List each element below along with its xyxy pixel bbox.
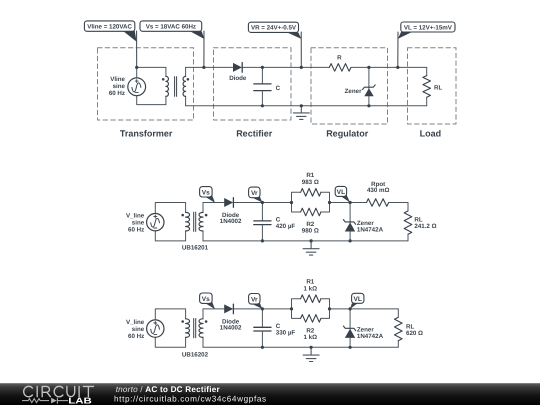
flag Vs mid <box>200 187 215 203</box>
svg-text:sine: sine <box>132 326 145 333</box>
resistor R2 mid <box>301 208 321 216</box>
diode D3 1N4002 bot <box>224 304 233 314</box>
svg-text:980 Ω: 980 Ω <box>302 228 319 235</box>
ground bot <box>303 347 319 361</box>
resistor R2 bot <box>301 315 321 323</box>
resistor RL top <box>423 67 431 105</box>
flag VL mid <box>335 186 350 202</box>
svg-text:VL: VL <box>337 189 345 196</box>
wire source top <box>136 67 138 78</box>
svg-text:1N4742A: 1N4742A <box>357 227 384 234</box>
wire RL branch mid <box>407 203 409 241</box>
svg-text:VL = 12V+-15mV: VL = 12V+-15mV <box>404 25 453 32</box>
diode D top <box>233 63 242 73</box>
callout Vline = 120VAC <box>84 21 136 68</box>
svg-text:LAB: LAB <box>68 395 92 405</box>
dashed box Regulator <box>311 48 388 124</box>
svg-text:V_line: V_line <box>126 319 145 326</box>
logo schematic line with resistor and diode <box>22 398 68 404</box>
svg-text:UB16201: UB16201 <box>182 245 209 252</box>
resistor R1 bot <box>301 295 321 303</box>
flag Vr bot <box>249 294 263 309</box>
wire bottom rail <box>186 105 427 107</box>
section labels <box>120 129 441 139</box>
wire top rail <box>186 66 427 68</box>
svg-text:420 µF: 420 µF <box>276 223 296 230</box>
resistor RL bot <box>395 317 403 340</box>
wire secondary leads bot <box>202 309 204 347</box>
svg-text:430 mΩ: 430 mΩ <box>367 187 390 194</box>
svg-text:Diode: Diode <box>229 75 247 82</box>
svg-text:Load: Load <box>420 129 442 139</box>
dashed box Rectifier <box>214 48 292 120</box>
svg-text:UB16202: UB16202 <box>182 351 209 358</box>
R1 R2 parallel block bot <box>292 299 330 319</box>
wire bottom rail bot <box>203 346 398 348</box>
svg-text:Transformer: Transformer <box>120 129 173 139</box>
svg-text:1N4002: 1N4002 <box>220 218 242 225</box>
zener D2 1N4742A mid <box>343 203 355 241</box>
svg-text:60 Hz: 60 Hz <box>128 333 144 340</box>
svg-text:sine: sine <box>113 83 126 90</box>
resistor R1 mid <box>301 189 321 197</box>
logo CIRCUIT <box>24 386 94 396</box>
svg-text:Vline = 120VAC: Vline = 120VAC <box>87 24 132 31</box>
svg-text:1N4002: 1N4002 <box>220 324 242 331</box>
svg-text:241.2 Ω: 241.2 Ω <box>414 223 436 230</box>
zener diode top <box>363 67 376 105</box>
svg-text:C: C <box>276 85 281 92</box>
capacitor C2 bot <box>254 309 271 347</box>
svg-text:1 kΩ: 1 kΩ <box>304 334 318 341</box>
svg-text:RL: RL <box>434 84 442 91</box>
labels bot <box>126 279 423 359</box>
resistor R top <box>329 64 351 72</box>
transformer T top <box>162 76 189 96</box>
svg-text:Vs: Vs <box>202 296 210 303</box>
capacitor C1 mid <box>254 203 271 241</box>
svg-text:Zener: Zener <box>345 88 362 95</box>
svg-text:330 µF: 330 µF <box>276 330 296 337</box>
svg-text:sine: sine <box>132 220 145 227</box>
svg-text:VL: VL <box>353 296 361 303</box>
junction dots mid <box>261 201 352 243</box>
flag VL bot <box>350 293 364 309</box>
ground mid <box>303 241 319 255</box>
wire primary top <box>137 66 166 68</box>
svg-text:http://circuitlab.com/cw34c64w: http://circuitlab.com/cw34c64wgpfas <box>114 394 267 403</box>
voltage source V2 bot <box>147 320 164 337</box>
svg-text:Regulator: Regulator <box>326 129 369 139</box>
svg-text:Vr: Vr <box>251 190 258 197</box>
svg-text:VR = 24V+-0.5V: VR = 24V+-0.5V <box>251 25 297 32</box>
zener D4 1N4742A bot <box>343 309 355 347</box>
svg-text:Vs = 18VAC 60Hz: Vs = 18VAC 60Hz <box>146 24 196 31</box>
resistor RL mid <box>404 211 412 234</box>
transformer UB16202 <box>181 319 207 338</box>
dashed box Transformer <box>98 48 194 120</box>
wire primary loop bot <box>155 309 185 347</box>
wire primary coil leads <box>165 67 167 104</box>
wire secondary coil leads <box>185 67 187 105</box>
wire top rail mid <box>203 202 408 204</box>
wire top rail bot <box>203 308 398 310</box>
svg-text:Rectifier: Rectifier <box>236 129 273 139</box>
labels mid <box>126 172 437 251</box>
wire primary loop mid <box>155 203 185 241</box>
junction dots top <box>135 66 399 108</box>
svg-text:Vs: Vs <box>202 189 210 196</box>
junction dots bot <box>261 307 352 349</box>
ground top <box>293 106 309 120</box>
svg-text:60 Hz: 60 Hz <box>128 227 144 234</box>
svg-text:tnorto / AC to DC Rectifier: tnorto / AC to DC Rectifier <box>116 385 221 394</box>
svg-text:1 kΩ: 1 kΩ <box>304 285 318 292</box>
dashed box Load <box>408 48 457 124</box>
voltage source V1 mid <box>147 214 164 231</box>
callout VL = 12V+-15mV <box>398 22 455 67</box>
svg-text:R: R <box>337 55 342 62</box>
R1 R2 parallel block mid <box>292 192 330 212</box>
callout Vs = 18VAC 60Hz <box>140 21 204 68</box>
wire bottom rail mid <box>203 240 408 242</box>
svg-text:Vline: Vline <box>110 76 125 83</box>
transformer UB16201 <box>181 212 207 231</box>
wire RL branch bot <box>397 309 399 347</box>
labels top diagram <box>109 55 443 97</box>
svg-text:60 Hz: 60 Hz <box>109 90 125 97</box>
svg-text:Vr: Vr <box>251 296 258 303</box>
voltage source V top <box>128 78 146 96</box>
flag Vs bot <box>200 293 215 309</box>
wire source bottom <box>137 96 166 105</box>
svg-text:620 Ω: 620 Ω <box>406 330 423 337</box>
wire secondary leads mid <box>202 203 204 241</box>
svg-text:1N4742A: 1N4742A <box>357 333 384 340</box>
flag Vr mid <box>249 187 263 202</box>
svg-text:V_line: V_line <box>126 213 145 220</box>
callout VR = 24V+-0.5V <box>248 22 301 67</box>
capacitor C top <box>254 67 271 105</box>
svg-text:983 Ω: 983 Ω <box>302 179 319 186</box>
resistor Rpot mid <box>367 199 389 207</box>
diode D1 1N4002 mid <box>224 198 233 208</box>
